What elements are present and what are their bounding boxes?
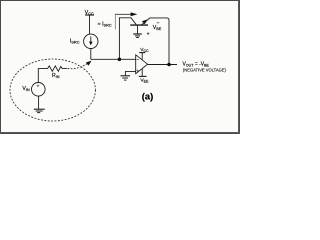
svg-text:(a): (a) (142, 90, 153, 101)
svg-text:+: + (136, 69, 139, 74)
svg-text:+: + (37, 84, 40, 89)
svg-text:−: − (157, 20, 160, 26)
svg-text:(NEGATIVE VOLTAGE): (NEGATIVE VOLTAGE) (183, 67, 227, 72)
svg-text:ISRC: ISRC (70, 38, 80, 44)
svg-text:+: + (147, 31, 150, 37)
svg-text:VCC: VCC (85, 10, 94, 16)
svg-text:−: − (136, 57, 139, 62)
